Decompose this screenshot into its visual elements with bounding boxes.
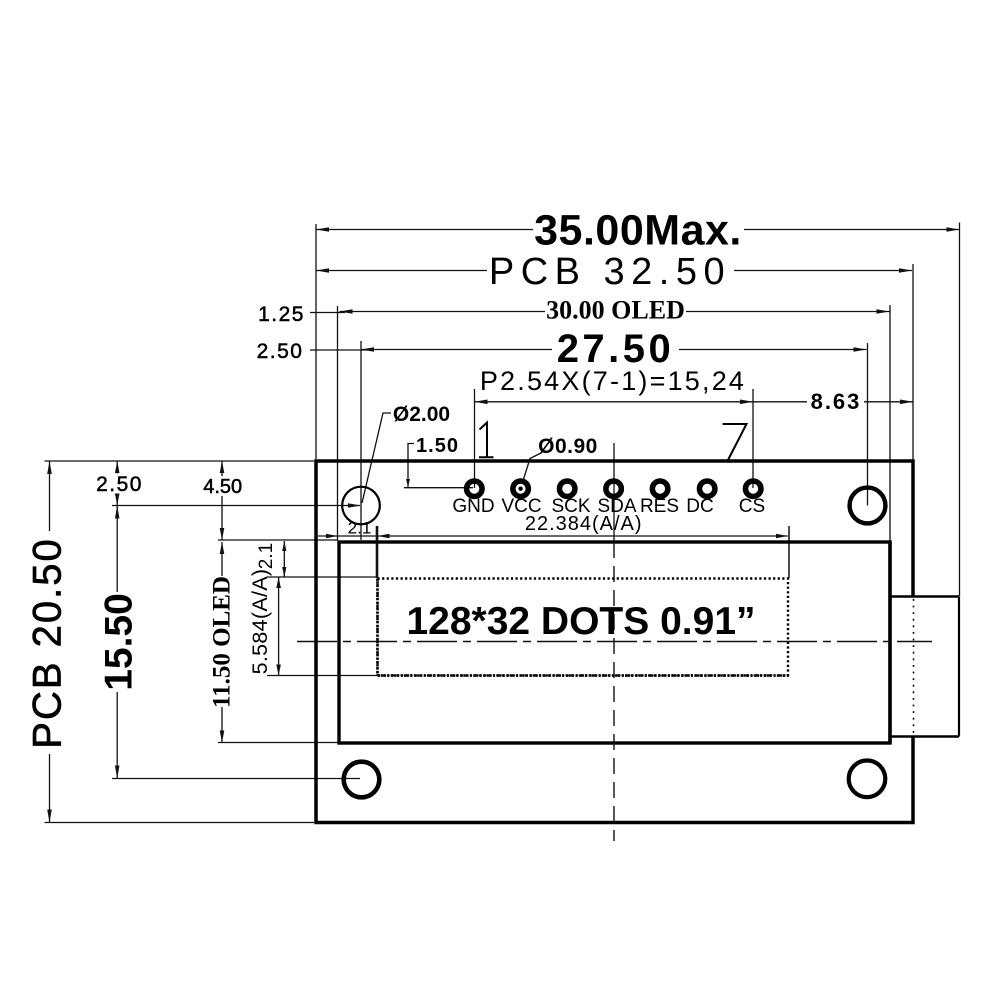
- extension line with arrow: top holes center (y=505.5): [112, 505, 360, 507]
- pin 7 CS pad: [745, 481, 761, 497]
- active display area dense bottom edge: [378, 674, 789, 677]
- dimension 22.384(A/A) with 2.1 hole offset arrows: [318, 535, 788, 537]
- extension line: active area left edge (x=377): [376, 526, 379, 578]
- pin 5 RES pad: [652, 481, 668, 497]
- extension line: active area bottom edge (y=675.5): [267, 675, 377, 677]
- svg-text:1.25: 1.25: [258, 303, 305, 326]
- pin 4 SDA pad: [606, 481, 622, 497]
- dimension 4.50 (PCB top to OLED top): [221, 461, 223, 540]
- svg-text:Ø0.90: Ø0.90: [538, 435, 598, 458]
- pin number 1: [479, 423, 494, 458]
- pin 6 DC pad: [699, 481, 715, 497]
- svg-text:30.00 OLED: 30.00 OLED: [546, 296, 685, 325]
- pin number 7: [723, 424, 747, 460]
- mounting hole top-right: [850, 488, 886, 524]
- pin 2 VCC center dot: [518, 487, 522, 491]
- extension line: PCB left edge (x=316): [315, 224, 317, 459]
- dimension 27.50: [361, 349, 867, 351]
- extension line: OLED glass right edge (x=890): [889, 305, 891, 541]
- svg-text:27.50: 27.50: [557, 327, 675, 371]
- extension line: PCB top edge (y=461): [45, 460, 315, 462]
- dimension 11.50 OLED (module height): [221, 542, 223, 743]
- svg-text:RES: RES: [640, 496, 679, 517]
- dimension 8.63: [753, 401, 913, 403]
- hidden PCB edge behind tab (dotted): [913, 599, 915, 734]
- svg-text:128*32 DOTS 0.91”: 128*32 DOTS 0.91”: [406, 600, 755, 643]
- svg-text:Ø2.00: Ø2.00: [393, 403, 450, 426]
- svg-text:2.50: 2.50: [257, 340, 304, 363]
- dimension 2.50 (left, PCB top to hole center): [116, 461, 118, 506]
- svg-text:SCK: SCK: [551, 496, 590, 517]
- dimension PCB 32.50: [316, 270, 912, 272]
- PCB outline: [316, 461, 913, 823]
- extension line: OLED module top edge (y=540): [218, 539, 338, 541]
- vertical centerline (dashed): [613, 542, 615, 841]
- dimension 15.50 (left, hole to hole vertical): [116, 506, 118, 779]
- svg-text:2.1: 2.1: [256, 543, 277, 569]
- extension line: OLED glass left edge (x=337.5): [337, 306, 339, 540]
- dimension P2.54X(7-1)=15,24: [475, 401, 754, 403]
- svg-text:PCB 32.50: PCB 32.50: [489, 251, 731, 293]
- mounting hole top-left: [342, 487, 380, 525]
- extension line: bottom holes center (y=778.5): [112, 778, 360, 780]
- OLED module outline: [339, 542, 890, 743]
- extension line: top-right hole center (x=867.5): [867, 343, 869, 506]
- extension line: PCB bottom edge (y=822.5): [45, 822, 315, 824]
- active display area (dotted rect): [378, 579, 789, 676]
- dimension 2.1 (OLED top to active area top): [283, 541, 285, 577]
- dimension 35.00Max.: [316, 229, 960, 231]
- bracket and label 1.50: [408, 444, 414, 488]
- mounting hole bottom-right: [849, 761, 886, 798]
- connector tab: [892, 597, 960, 737]
- extension line: OLED module bottom edge (y=742.5): [218, 742, 338, 744]
- pin 1 GND pad: [467, 481, 483, 497]
- svg-text:GND: GND: [452, 496, 494, 517]
- dimension 5.584(A/A) (active area height): [278, 577, 280, 676]
- extension line: pin 1 (x=474.5): [474, 389, 476, 488]
- horizontal centerline: [297, 641, 932, 643]
- extension line: SDA pin / vertical center (x=614): [613, 443, 615, 542]
- svg-text:1.50: 1.50: [416, 435, 459, 457]
- leader for hole diameter Ø2.00: [362, 413, 391, 503]
- svg-text:P2.54X(7-1)=15,24: P2.54X(7-1)=15,24: [480, 366, 746, 396]
- dimension PCB 20.50 (left, vertical): [49, 461, 51, 823]
- label 2.50 (top) with reference line: [310, 349, 368, 351]
- svg-text:5.584(A/A): 5.584(A/A): [248, 569, 272, 675]
- extension line: connector tab right edge (x=959.5): [959, 223, 961, 597]
- extension line: pin 7 (x=753): [752, 389, 754, 488]
- svg-text:SDA: SDA: [597, 496, 636, 517]
- svg-text:11.50 OLED: 11.50 OLED: [209, 576, 236, 708]
- svg-text:PCB 20.50: PCB 20.50: [26, 537, 70, 748]
- mounting hole bottom-left: [344, 762, 380, 798]
- OLED module right edge over tab: [888, 542, 891, 743]
- svg-text:DC: DC: [686, 496, 713, 517]
- active display area dense left edge: [376, 579, 379, 676]
- dimension 30.00 OLED: [340, 311, 890, 313]
- extension line: top-left hole center (x=361): [360, 341, 362, 540]
- svg-text:2.50: 2.50: [96, 473, 143, 496]
- svg-text:4.50: 4.50: [203, 476, 242, 498]
- svg-text:CS: CS: [739, 496, 765, 517]
- svg-text:VCC: VCC: [501, 496, 541, 517]
- extension line: PCB right edge (x=913): [912, 264, 914, 460]
- svg-text:15.50: 15.50: [98, 593, 141, 691]
- pin 3 SCK pad: [559, 481, 575, 497]
- leader for pin hole diameter Ø0.90: [522, 453, 541, 484]
- extension line: active area right edge (x=789): [788, 526, 790, 578]
- svg-text:35.00Max.: 35.00Max.: [534, 207, 742, 255]
- pin 2 VCC pad: [513, 481, 529, 497]
- label 1.25 with reference line: [310, 312, 345, 314]
- svg-text:8.63: 8.63: [811, 389, 862, 414]
- extension line: active area top edge (y=577): [267, 576, 377, 578]
